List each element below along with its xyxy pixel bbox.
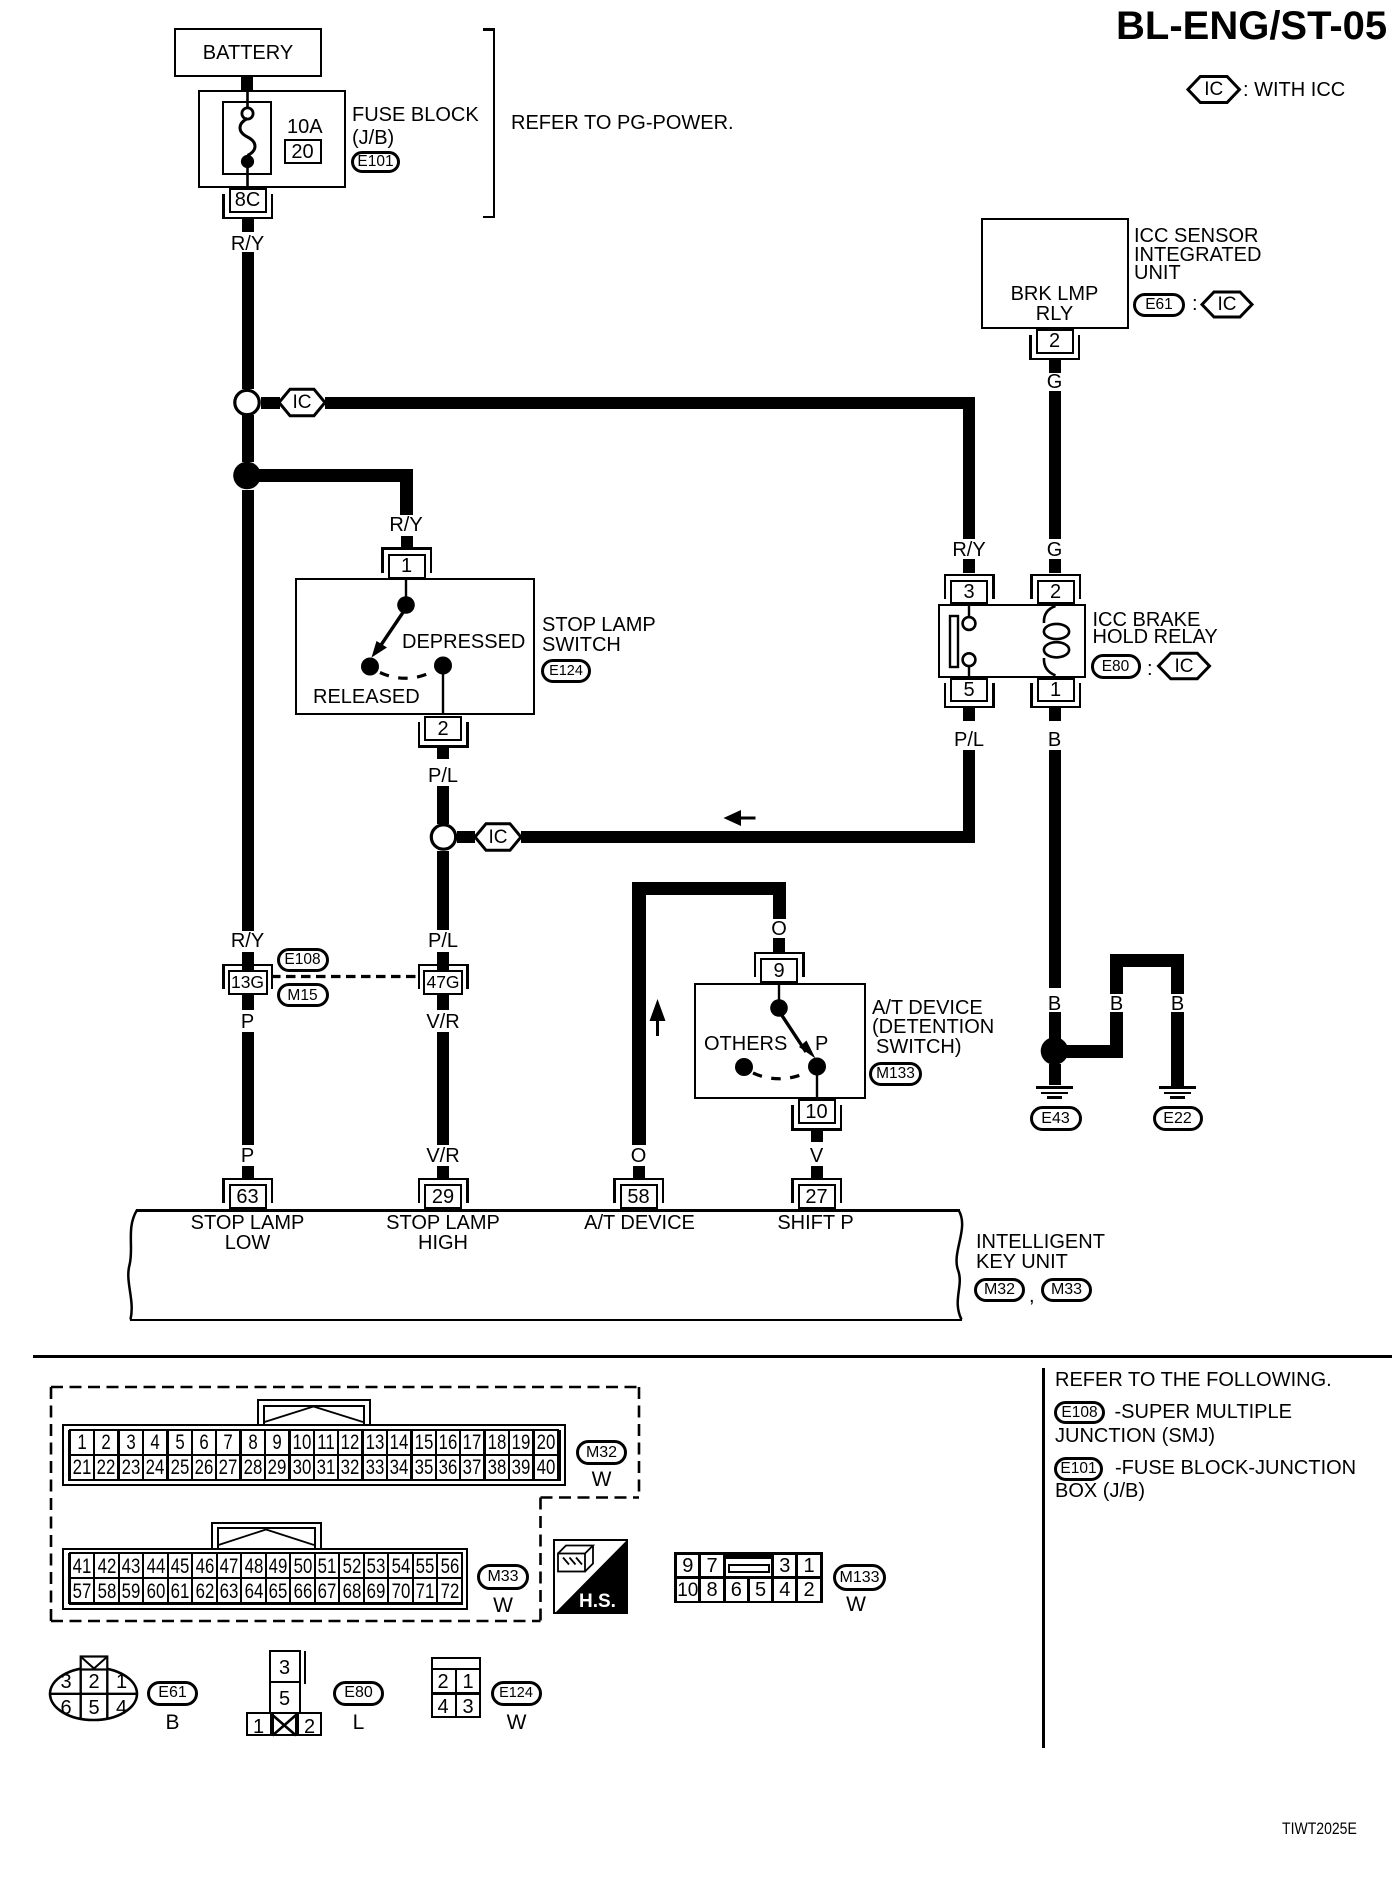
- wire battery to fuse block: [241, 77, 253, 91]
- wire P/L down to IC node 2: [437, 786, 449, 824]
- intelligent key connector 27: [798, 1184, 836, 1209]
- label DEPRESSED: [402, 632, 525, 652]
- A/T device connector 10: [798, 1099, 836, 1124]
- label P above 63: [241, 1146, 254, 1166]
- connector label M133 oval and W: [833, 1564, 886, 1591]
- label ICC SENSOR INTEGRATED UNIT: [1134, 226, 1258, 246]
- wire stub below relay pin 5: [963, 708, 975, 721]
- label O above connector 58: [631, 1146, 647, 1166]
- ground symbol E43: [1036, 1086, 1073, 1089]
- label REFER TO PG-POWER.: [511, 113, 734, 133]
- label OTHERS: [704, 1034, 787, 1054]
- wire stub above connector 9: [773, 938, 785, 954]
- label B above E43 junction: [1048, 994, 1061, 1014]
- junction dot: [233, 462, 261, 490]
- fuse F20 inner box: [222, 101, 272, 175]
- wire stub above stop lamp connector 1: [401, 536, 413, 548]
- HS view icon: [553, 1539, 628, 1615]
- M32 top bump: [257, 1399, 371, 1426]
- intelligent key connector 58: [620, 1184, 658, 1209]
- connector label E61 oval with IC hexagon: [1133, 293, 1185, 317]
- ICC sensor integrated unit box E61: [981, 218, 1130, 329]
- ground label E22 oval: [1153, 1106, 1203, 1131]
- node open circle 2 with IC: [431, 825, 455, 849]
- label B loop left: [1110, 994, 1123, 1014]
- connector M32 40-pin block: [62, 1424, 566, 1486]
- connector E61 oval 6-pin: [60, 1672, 71, 1692]
- tag IC hexagon on wire: [293, 393, 312, 412]
- drawing code TIWT2025E: [1282, 1821, 1357, 1838]
- label A/T DEVICE (DETENTION SWITCH): [872, 998, 983, 1018]
- tag IC hexagon 2 on wire: [475, 824, 521, 851]
- wire stub above connector 27: [811, 1166, 823, 1179]
- A/T device detention switch box M133: [694, 983, 866, 1099]
- dashed harness group box: [51, 1386, 639, 1389]
- relay contact: [950, 616, 958, 667]
- wire R/Y main down to 13G: [242, 490, 254, 931]
- connector label E124 oval: [541, 659, 591, 683]
- label R/Y above relay pin 3: [952, 540, 985, 560]
- intelligent key unit wavy right edge: [957, 1210, 963, 1320]
- wire A/T left leg down to 58: [632, 895, 646, 1145]
- label STOP LAMP HIGH: [386, 1213, 500, 1233]
- label FUSE BLOCK (J/B): [352, 105, 479, 125]
- M33 top bump: [211, 1522, 322, 1550]
- connector label E80 oval and L: [333, 1681, 384, 1706]
- reference E108 oval SMJ: [1054, 1401, 1105, 1425]
- connector label E101 oval: [351, 151, 400, 173]
- connector labels M32 M33 ovals: [974, 1278, 1025, 1302]
- legend IC hexagon : WITH ICC: [1188, 77, 1240, 103]
- connector label E80 oval with IC hexagon: [1159, 653, 1210, 679]
- connector E80 block: [273, 1715, 297, 1736]
- ground label E43 oval: [1030, 1106, 1082, 1131]
- connector 8C: [229, 188, 267, 213]
- connector M33 32-pin block: [62, 1548, 468, 1610]
- connector 2 below ICC sensor unit: [1036, 329, 1074, 354]
- wire P down to 63: [242, 1032, 254, 1145]
- stop lamp switch contacts: [405, 580, 407, 597]
- wire stub above 13G: [242, 952, 254, 971]
- wire IC2 to relay pin 5 horizontal: [521, 831, 975, 843]
- label B below relay pin 1: [1048, 730, 1061, 750]
- label ICC BRAKE HOLD RELAY: [1093, 610, 1201, 630]
- intelligent key unit box: [136, 1209, 960, 1212]
- connector label M33 oval and W: [477, 1564, 529, 1590]
- label R/Y above 13G: [231, 931, 264, 951]
- wire below IC node: [242, 415, 254, 462]
- label A/T DEVICE pin: [584, 1213, 695, 1233]
- wire stub below stop lamp connector 2: [437, 748, 449, 759]
- label R/Y above stop lamp connector 1: [389, 515, 422, 535]
- wire B down from relay pin 1: [1049, 750, 1061, 988]
- arrow left on P/L wire: [724, 810, 742, 826]
- wire stub to ground E43: [1049, 1064, 1061, 1085]
- wire B loop left leg lower: [1110, 1012, 1123, 1045]
- reference column divider line: [1042, 1368, 1045, 1748]
- label R/Y below 8C: [231, 234, 264, 254]
- wire A/T right leg down to connector 9: [773, 895, 787, 919]
- battery box: [174, 28, 322, 77]
- connector label M32 oval and W: [576, 1440, 627, 1465]
- stop lamp switch connector 2: [424, 716, 462, 741]
- HS view icon: [555, 1540, 628, 1614]
- wire A/T device horizontal top: [632, 882, 786, 896]
- wire stub above 29: [437, 1166, 449, 1179]
- wire G down to relay pin 2: [1049, 391, 1061, 539]
- wire B loop left leg upper: [1110, 966, 1123, 994]
- wire B segment to junction dot: [1049, 1012, 1061, 1039]
- fuse symbol: [246, 88, 249, 109]
- A/T switch contacts: [778, 985, 780, 1000]
- intelligent key connector 63: [229, 1184, 267, 1209]
- wire stub below 8C: [242, 218, 254, 232]
- wire stub below relay pin 1: [1049, 708, 1061, 721]
- fuse number 20 box: [284, 139, 322, 164]
- dashed line 13G to 47G: [271, 975, 417, 978]
- intelligent key connector 29: [424, 1184, 462, 1209]
- wire below IC node 2 down to 47G: [437, 851, 449, 930]
- wire dot to B loop horizontal: [1060, 1045, 1123, 1059]
- title BL-ENG/ST-05: [1116, 6, 1387, 46]
- wire down to stop lamp connector 1: [400, 469, 413, 515]
- connector label E108 oval: [277, 948, 329, 972]
- connector label E61 oval with IC hexagon: [1202, 292, 1252, 317]
- intelligent key unit wavy left edge: [128, 1210, 137, 1320]
- label O above connector 9: [771, 919, 787, 939]
- wire stub above connector 58: [633, 1166, 645, 1179]
- wire stub above 47G: [437, 952, 449, 971]
- fuse symbol 10A: [287, 117, 323, 137]
- connector label E61 oval and B: [147, 1681, 198, 1706]
- connector label E80 oval with IC hexagon: [1091, 654, 1141, 679]
- connector E61 oval 6-pin: [50, 1668, 137, 1720]
- wire stub below 13G: [242, 995, 254, 1010]
- stop lamp switch box E124: [295, 578, 535, 715]
- connector label M15 oval: [277, 983, 329, 1007]
- tag IC hexagon 2 on wire: [489, 828, 508, 847]
- wire B loop right leg upper: [1171, 966, 1184, 994]
- legend IC hexagon : WITH ICC: [1204, 80, 1223, 99]
- wire V/R down to 29: [437, 1032, 449, 1145]
- M33 pin grid: [69, 1552, 463, 1605]
- relay pin 3 connector: [950, 580, 988, 604]
- wire B loop top horizontal: [1110, 954, 1184, 967]
- label G below ICC sensor: [1047, 372, 1063, 392]
- bracket refer to pg-power: [483, 28, 495, 31]
- wire B loop right leg lower: [1171, 1012, 1184, 1086]
- connector M133 block: [674, 1552, 822, 1603]
- wire IC to relay pin 3 horizontal: [325, 397, 975, 409]
- relay pin 2 connector: [1037, 580, 1075, 604]
- label G above relay pin 2: [1047, 540, 1063, 560]
- ICC brake hold relay box E80: [938, 604, 1086, 678]
- wire down to relay pin 3 vertical: [963, 397, 975, 539]
- wire R/Y down from 8C to IC node: [242, 252, 254, 389]
- label RELEASED: [313, 687, 420, 707]
- wire stub node2 to IC hexagon: [457, 831, 475, 843]
- wire stub node to IC hexagon: [261, 397, 280, 409]
- wire stub above relay pin 3: [963, 559, 975, 573]
- label P inside A/T device: [815, 1034, 828, 1054]
- wire stub below connector 10: [811, 1130, 823, 1142]
- relay pin 1 connector: [1037, 678, 1075, 702]
- label P/L below stop lamp switch: [428, 766, 458, 786]
- connector E124 block: [431, 1657, 481, 1719]
- label V/R below 47G: [426, 1012, 459, 1032]
- connector 13G: [228, 970, 268, 995]
- label INTELLIGENT KEY UNIT: [976, 1232, 1105, 1252]
- stop lamp switch connector 1: [388, 554, 426, 579]
- arrow up beside A/T wire: [650, 999, 666, 1021]
- connector label E124 oval and W: [491, 1681, 542, 1706]
- reference E101 oval fuse block: [1054, 1457, 1103, 1481]
- label P/L below relay pin 5: [954, 730, 984, 750]
- HS icon mini connector drawing: [558, 1546, 593, 1572]
- label STOP LAMP LOW: [191, 1213, 305, 1233]
- M32 pin grid: [69, 1429, 559, 1482]
- connector 47G: [423, 970, 463, 995]
- label V below connector 10: [810, 1146, 823, 1166]
- wire stub above relay pin 2: [1049, 559, 1061, 573]
- relay pin 5 connector: [950, 678, 988, 702]
- wire stub above 63: [242, 1166, 254, 1179]
- tag IC hexagon on wire: [279, 389, 325, 416]
- junction dot B: [1041, 1037, 1069, 1065]
- wire junction to stop lamp switch horizontal: [252, 469, 413, 482]
- label SHIFT P pin: [777, 1213, 853, 1233]
- fuse block J/B box E101: [198, 90, 346, 188]
- relay coil: [1044, 606, 1056, 623]
- wire stub below connector 2: [1049, 360, 1061, 373]
- label V/R above 29: [426, 1146, 459, 1166]
- ground symbol E22: [1159, 1086, 1196, 1089]
- label REFER TO THE FOLLOWING.: [1055, 1370, 1332, 1390]
- wire relay pin 5 down vertical: [963, 750, 975, 843]
- separator line: [33, 1355, 1392, 1358]
- label P below 13G: [241, 1012, 254, 1032]
- label B loop right: [1171, 994, 1184, 1014]
- connector label M133 oval: [869, 1062, 922, 1086]
- M32 bump peak lines: [265, 1407, 364, 1423]
- M33 bump peak lines: [219, 1530, 315, 1546]
- label STOP LAMP SWITCH: [542, 615, 656, 635]
- connector E80 block: [269, 1650, 301, 1684]
- wire stub below 47G: [437, 995, 449, 1010]
- A/T device connector 9: [760, 958, 798, 983]
- node open circle with IC: [235, 390, 259, 414]
- label P/L above 47G: [428, 931, 458, 951]
